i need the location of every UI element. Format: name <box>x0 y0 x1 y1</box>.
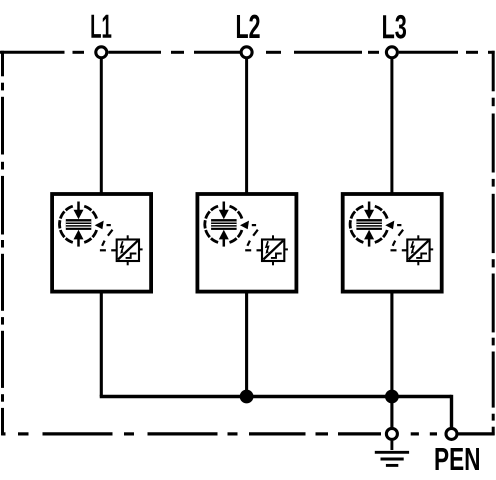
label L3 <box>383 15 406 39</box>
dashed trigger line (SPD module 2) <box>245 225 261 250</box>
wire: SPD module 3 down through PEN bus to PE terminal <box>390 291 393 428</box>
label L2 <box>237 15 260 38</box>
top arrow into spark gap (SPD module 1) <box>74 202 84 220</box>
label PEN <box>436 448 479 470</box>
SPD module 1 outline box <box>52 194 151 292</box>
PEN terminal (open circle on bottom line) <box>446 428 457 439</box>
label L1 <box>91 15 111 38</box>
spark gap electrode stack (SPD module 3) <box>356 219 382 230</box>
spark gap symbol (SPD module 3): dashed circle <box>350 206 387 242</box>
ground symbol <box>375 441 409 466</box>
trigger/control unit symbol (SPD module 2) <box>262 235 288 265</box>
bottom arrow into spark gap (SPD module 3) <box>364 230 374 247</box>
trigger arrowhead pointing at spark gap (SPD module 3) <box>385 221 394 230</box>
wire: terminal L1 down to SPD module 1 <box>100 58 103 194</box>
terminal L1 (open circle) <box>96 47 107 58</box>
PE terminal (open circle on bottom line) <box>386 428 397 439</box>
dashed trigger line (SPD module 1) <box>100 225 116 250</box>
left boundary dash-dot line <box>1 51 4 435</box>
top dash-dot phase bus line <box>0 51 495 54</box>
SPD module 2 outline box <box>197 194 296 292</box>
SPD module 3 outline box <box>343 194 442 292</box>
right boundary dash-dot line <box>492 51 495 435</box>
spark gap symbol (SPD module 2): dashed circle <box>205 206 242 242</box>
spark gap electrode stack (SPD module 2) <box>211 219 237 230</box>
wire: SPD module 1 down to PEN bus corner <box>100 291 103 397</box>
trigger arrowhead pointing at spark gap (SPD module 1) <box>95 221 104 230</box>
wire: terminal L3 down to SPD module 3 <box>390 58 393 194</box>
terminal L2 (open circle) <box>241 47 252 58</box>
junction: SPD2 / PEN bus <box>240 390 254 404</box>
trigger/control unit symbol (SPD module 3) <box>407 235 433 265</box>
wire: SPD module 2 down to PEN bus <box>245 291 248 397</box>
dashed trigger line (SPD module 3) <box>391 225 407 250</box>
bottom arrow into spark gap (SPD module 1) <box>74 230 84 247</box>
junction: SPD3 / PEN bus <box>385 390 399 404</box>
wire: PEN bus down to PEN terminal <box>450 395 453 428</box>
wire: terminal L2 down to SPD module 2 <box>245 58 248 194</box>
top arrow into spark gap (SPD module 2) <box>219 202 229 220</box>
spark gap electrode stack (SPD module 1) <box>66 219 92 230</box>
bottom arrow into spark gap (SPD module 2) <box>219 230 229 247</box>
trigger arrowhead pointing at spark gap (SPD module 2) <box>240 221 249 230</box>
bottom dash-dot PEN line <box>1 432 494 435</box>
top arrow into spark gap (SPD module 3) <box>364 202 374 220</box>
trigger/control unit symbol (SPD module 1) <box>117 235 143 265</box>
spark gap symbol (SPD module 1): dashed circle <box>60 206 97 242</box>
PEN bus wire (horizontal collecting bus) <box>100 395 452 398</box>
terminal L3 (open circle) <box>386 47 397 58</box>
